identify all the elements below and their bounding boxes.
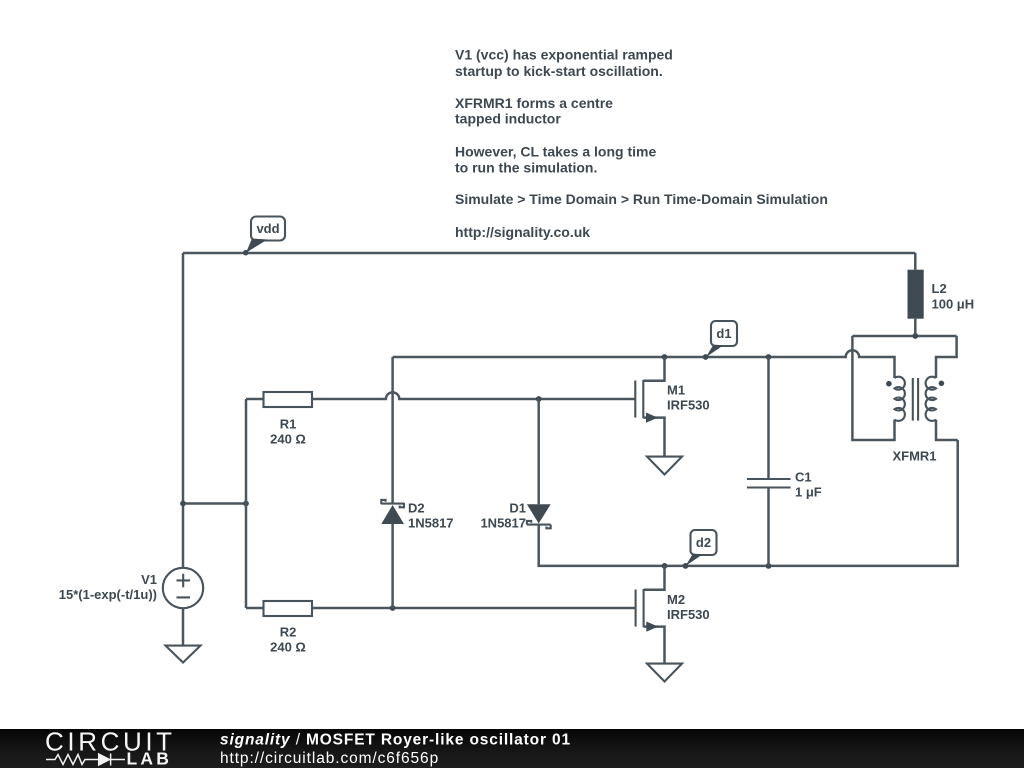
svg-text:1N5817: 1N5817 — [480, 516, 526, 531]
transformer XFMR1 — [886, 377, 944, 464]
inductor L2 — [908, 253, 975, 336]
wire D2 anode down — [391, 524, 394, 608]
svg-text:http://circuitlab.com/c6f656p: http://circuitlab.com/c6f656p — [220, 750, 439, 767]
wire D1 top lead — [537, 399, 540, 504]
wire R chain vertical — [245, 399, 248, 608]
svg-text:M1: M1 — [667, 383, 685, 398]
node d2 label junction — [683, 563, 689, 569]
svg-text:However, CL takes a long time: However, CL takes a long time — [455, 143, 656, 159]
svg-text:240 Ω: 240 Ω — [270, 640, 306, 655]
wire V1 to ground — [182, 608, 185, 645]
svg-text:100 μH: 100 μH — [932, 296, 975, 311]
node d1 label junction — [703, 354, 709, 360]
ground V1 — [166, 646, 201, 663]
wire d1 rail to D2 — [391, 357, 394, 504]
ground M1 — [647, 457, 682, 475]
node C1 bottom junction — [766, 563, 772, 569]
svg-text:Simulate > Time Domain > Run T: Simulate > Time Domain > Run Time-Domain… — [455, 191, 828, 207]
svg-text:R2: R2 — [280, 625, 297, 640]
wire link bar — [183, 502, 246, 505]
net label d1 — [706, 321, 737, 357]
wire R2 left lead — [246, 607, 264, 610]
wire d1 rail with hop — [393, 350, 895, 378]
wire right winding bottom lead — [936, 420, 958, 440]
svg-text:L2: L2 — [932, 281, 947, 296]
node D2 bottom junction — [390, 605, 396, 611]
wire D1 bottom to d2 rail — [539, 440, 958, 566]
svg-text:D2: D2 — [408, 501, 425, 516]
wire R1 to M1 gate with hop — [312, 392, 635, 399]
resistor R1 — [264, 392, 313, 447]
svg-text:http://signality.co.uk: http://signality.co.uk — [455, 224, 590, 240]
transistor M2 IRF530 — [636, 566, 710, 664]
svg-text:d2: d2 — [696, 535, 711, 550]
svg-text:vdd: vdd — [256, 221, 279, 236]
svg-text:R1: R1 — [280, 417, 297, 432]
node D1 top junction — [536, 396, 542, 402]
footer bar — [0, 729, 1024, 768]
wire centre tap right down — [936, 336, 957, 378]
svg-text:C1: C1 — [795, 470, 812, 485]
svg-text:15*(1-exp(-t/1u)): 15*(1-exp(-t/1u)) — [59, 587, 157, 602]
svg-text:XFRMR1 forms a centre: XFRMR1 forms a centre — [455, 95, 613, 111]
diode D1 1N5817 — [480, 501, 550, 531]
node C1 top junction — [766, 354, 772, 360]
svg-text:LAB: LAB — [127, 749, 173, 768]
svg-text:XFMR1: XFMR1 — [892, 449, 936, 464]
svg-text:D1: D1 — [509, 501, 526, 516]
svg-text:startup to kick-start oscillat: startup to kick-start oscillation. — [455, 63, 663, 79]
transistor M1 IRF530 — [635, 357, 709, 457]
wire R1 left lead — [246, 398, 264, 401]
wire left vertical to V1 — [182, 253, 185, 568]
net label vdd — [243, 217, 285, 256]
svg-text:240 Ω: 240 Ω — [270, 432, 306, 447]
svg-text:IRF530: IRF530 — [667, 398, 710, 413]
node centre tap junction — [912, 333, 918, 339]
node M1 drain junction — [662, 354, 668, 360]
voltage source V1 — [59, 568, 203, 608]
svg-text:signality / MOSFET Royer-like: signality / MOSFET Royer-like oscillator… — [220, 732, 571, 749]
node junction left — [180, 501, 186, 507]
wire R2 to M2 gate — [312, 607, 636, 610]
wire transformer centre tap bar — [852, 335, 956, 338]
svg-text:d1: d1 — [716, 326, 731, 341]
svg-text:V1 (vcc) has exponential rampe: V1 (vcc) has exponential ramped — [455, 47, 673, 63]
capacitor C1 — [747, 357, 822, 566]
svg-text:tapped inductor: tapped inductor — [455, 111, 561, 127]
svg-text:1N5817: 1N5817 — [408, 516, 454, 531]
wire vdd rail — [183, 252, 915, 255]
annotation text block — [455, 47, 828, 241]
svg-text:V1: V1 — [141, 572, 157, 587]
resistor R2 — [264, 601, 313, 655]
logo squiggle resistor and diode — [46, 754, 125, 766]
wire centre tap left down — [852, 336, 894, 440]
svg-text:1 μF: 1 μF — [795, 485, 822, 500]
svg-text:M2: M2 — [667, 592, 685, 607]
svg-text:IRF530: IRF530 — [667, 607, 710, 622]
node junction right — [243, 501, 249, 507]
diode D2 1N5817 — [381, 500, 453, 531]
ground M2 — [647, 664, 682, 682]
svg-text:to run the simulation.: to run the simulation. — [455, 160, 597, 176]
node M2 drain junction — [662, 563, 668, 569]
net label d2 — [685, 530, 716, 566]
